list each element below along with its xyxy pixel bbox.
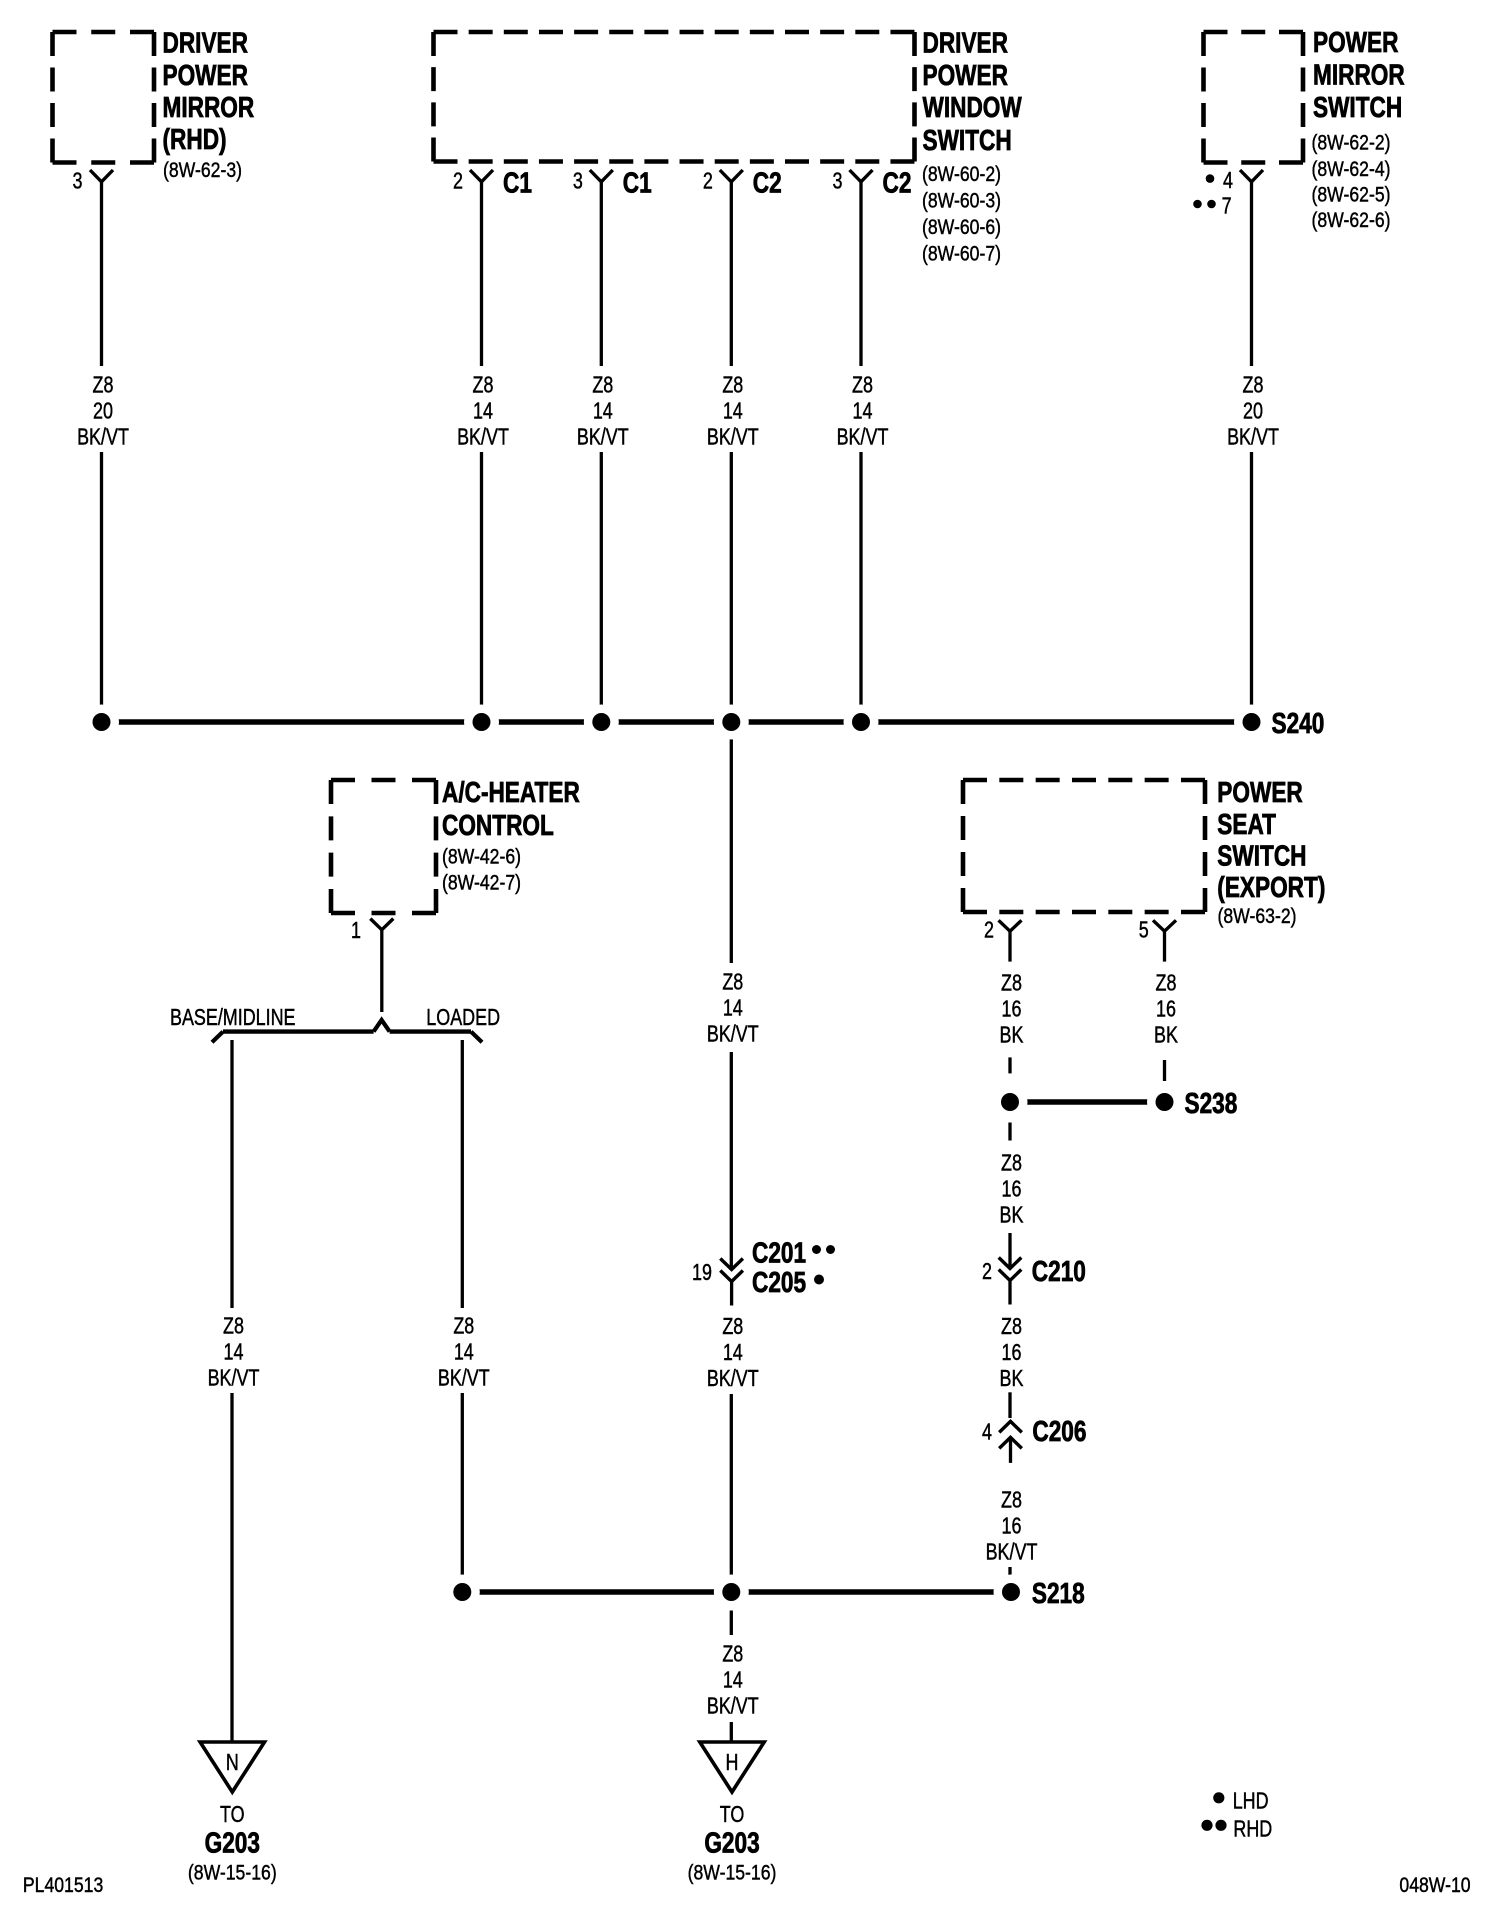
pin 1 of A/C-heater control bbox=[351, 918, 393, 944]
svg-text:C2: C2 bbox=[753, 166, 782, 199]
svg-text:14: 14 bbox=[224, 1339, 244, 1365]
label S218 bbox=[1032, 1576, 1085, 1609]
svg-text:Z8: Z8 bbox=[722, 1314, 743, 1340]
option split symbol BASE/MIDLINE vs LOADED bbox=[212, 1020, 482, 1042]
in-line connector C210 pin 2 bbox=[999, 1258, 1022, 1305]
svg-text:Z8: Z8 bbox=[1001, 1487, 1022, 1513]
wire dash seat pin2 to S238 bbox=[1008, 1057, 1011, 1073]
svg-text:Z8: Z8 bbox=[1156, 971, 1177, 997]
svg-text:BK/VT: BK/VT bbox=[457, 425, 509, 451]
legend RHD bbox=[1201, 1816, 1272, 1842]
value label Z8 14 BK/VT below S218 bbox=[707, 1641, 759, 1719]
label S240 bbox=[1272, 706, 1325, 739]
wire S218 to ground dash bbox=[730, 1611, 733, 1636]
label LOADED bbox=[426, 1005, 500, 1031]
wire dash above S218 bbox=[1008, 1567, 1011, 1579]
wire Z8 20 BK/VT mirror to S240 (lower) bbox=[100, 452, 103, 722]
svg-text:C1: C1 bbox=[623, 166, 652, 199]
wire to ground H bbox=[730, 1722, 733, 1742]
label A/C-HEATER CONTROL (8W-42-x) bbox=[442, 775, 580, 895]
legend LHD bbox=[1213, 1788, 1268, 1814]
svg-text:C1: C1 bbox=[503, 166, 532, 199]
svg-text:Z8: Z8 bbox=[1243, 373, 1264, 399]
svg-text:14: 14 bbox=[473, 399, 493, 425]
svg-text:Z8: Z8 bbox=[592, 373, 613, 399]
pin 2 of power seat switch bbox=[984, 917, 1021, 943]
svg-text:(8W-15-16): (8W-15-16) bbox=[688, 1861, 777, 1885]
wire dash above C210 bbox=[1008, 1233, 1011, 1267]
value label Z8 14 BK/VT x=601.3 bbox=[577, 373, 629, 451]
component box U1 DRIVER POWER MIRROR (RHD) bbox=[53, 32, 155, 163]
label C210 bbox=[1032, 1254, 1086, 1287]
svg-text:4: 4 bbox=[982, 1419, 992, 1445]
svg-text:(8W-63-2): (8W-63-2) bbox=[1218, 905, 1297, 929]
pin 7 marker (RHD dots) bbox=[1193, 194, 1231, 220]
svg-text:048W-10: 048W-10 bbox=[1399, 1874, 1470, 1898]
svg-text:1: 1 bbox=[351, 918, 361, 944]
value label Z8 16 BK pin5 bbox=[1154, 971, 1178, 1049]
value label Z8 20 BK/VT bbox=[77, 373, 129, 451]
svg-text:Z8: Z8 bbox=[722, 373, 743, 399]
svg-text:DRIVER: DRIVER bbox=[163, 26, 249, 59]
label POWER MIRROR SWITCH (8W-62-x) bbox=[1312, 25, 1405, 232]
svg-text:C206: C206 bbox=[1032, 1414, 1086, 1447]
svg-text:2: 2 bbox=[703, 169, 713, 195]
svg-text:RHD: RHD bbox=[1233, 1816, 1272, 1842]
svg-text:(8W-62-2): (8W-62-2) bbox=[1312, 131, 1391, 155]
svg-text:N: N bbox=[226, 1750, 239, 1776]
component box U5 POWER SEAT SWITCH (EXPORT) bbox=[963, 780, 1205, 912]
pin 2 C2 of window switch bbox=[703, 166, 782, 199]
wire dash above C206 bbox=[1008, 1392, 1011, 1418]
junction halos bbox=[84, 705, 1269, 1610]
pin 3 C1 of window switch bbox=[573, 166, 652, 199]
svg-text:C205: C205 bbox=[752, 1265, 806, 1298]
wire BASE/MIDLINE branch (upper) bbox=[230, 1040, 233, 1308]
svg-text:20: 20 bbox=[93, 399, 113, 425]
svg-text:Z8: Z8 bbox=[1001, 971, 1022, 997]
pin connector of power mirror switch bbox=[1240, 170, 1263, 182]
svg-text:(8W-42-7): (8W-42-7) bbox=[442, 871, 521, 895]
svg-text:14: 14 bbox=[853, 399, 873, 425]
svg-text:3: 3 bbox=[73, 169, 83, 195]
svg-text:14: 14 bbox=[723, 996, 743, 1022]
wire Z8 14 BK/VT S240 to C201 (upper) bbox=[730, 722, 733, 963]
wire splice bus S218 bbox=[462, 1589, 1011, 1595]
pin 4 marker (LHD dot) bbox=[1206, 168, 1233, 194]
svg-text:TO: TO bbox=[720, 1802, 745, 1828]
svg-text:20: 20 bbox=[1243, 399, 1263, 425]
label C205 with LHD dot bbox=[752, 1265, 824, 1298]
wire seat pin 5 stem bbox=[1163, 931, 1166, 961]
wire Z8 20 BK/VT mirror to S240 (upper) bbox=[100, 182, 103, 366]
label BASE/MIDLINE bbox=[170, 1005, 296, 1031]
wire Z8 14 BK/VT window switch pin x=861 (upper) bbox=[859, 182, 862, 366]
wire Z8 14 BK/VT window switch pin x=861 (lower) bbox=[859, 452, 862, 722]
svg-text:MIRROR: MIRROR bbox=[163, 90, 255, 123]
svg-text:BK/VT: BK/VT bbox=[577, 425, 629, 451]
svg-text:(RHD): (RHD) bbox=[163, 122, 227, 155]
svg-text:Z8: Z8 bbox=[1001, 1150, 1022, 1176]
svg-text:(8W-60-6): (8W-60-6) bbox=[922, 216, 1001, 240]
pin 3 C2 of window switch bbox=[833, 166, 912, 199]
wire dash S238 down bbox=[1008, 1123, 1011, 1141]
svg-text:14: 14 bbox=[723, 399, 743, 425]
label S238 bbox=[1185, 1086, 1238, 1119]
ground symbol N to G203 bbox=[188, 1742, 277, 1885]
svg-text:(8W-62-5): (8W-62-5) bbox=[1312, 183, 1391, 207]
wire Z8 14 BK/VT window switch pin x=601.3 (lower) bbox=[600, 452, 603, 722]
svg-text:BK: BK bbox=[1154, 1023, 1178, 1049]
svg-text:3: 3 bbox=[833, 169, 843, 195]
wire Z8 14 BK/VT S240 to C201 (lower) bbox=[730, 1052, 733, 1270]
svg-text:SEAT: SEAT bbox=[1217, 807, 1276, 840]
svg-text:BK: BK bbox=[1000, 1023, 1024, 1049]
svg-text:19: 19 bbox=[692, 1260, 712, 1286]
wire from A/C pin 1 to option split bbox=[380, 930, 383, 1012]
value label Z8 14 BK/VT x=481.5 bbox=[457, 373, 509, 451]
svg-text:Z8: Z8 bbox=[852, 373, 873, 399]
svg-text:H: H bbox=[726, 1750, 739, 1776]
in-line connector C201/C205 pin 19 bbox=[720, 1259, 743, 1306]
svg-text:(8W-60-7): (8W-60-7) bbox=[922, 242, 1001, 266]
svg-text:14: 14 bbox=[593, 399, 613, 425]
svg-text:Z8: Z8 bbox=[722, 970, 743, 996]
wire Z8 14 BK/VT window switch pin x=731.3 (upper) bbox=[730, 182, 733, 366]
svg-text:(8W-42-6): (8W-42-6) bbox=[442, 845, 521, 869]
svg-text:4: 4 bbox=[1223, 168, 1233, 194]
wire dash seat pin5 to S238 bbox=[1163, 1060, 1166, 1081]
svg-text:CONTROL: CONTROL bbox=[442, 808, 554, 841]
value label Z8 14 BK/VT middle upper bbox=[707, 970, 759, 1048]
value label Z8 14 BK/VT x=731.3 bbox=[707, 373, 759, 451]
svg-text:Z8: Z8 bbox=[722, 1641, 743, 1667]
wire LOADED branch (upper) bbox=[461, 1040, 464, 1308]
label DRIVER POWER MIRROR (RHD) (8W-62-3) bbox=[163, 26, 255, 183]
svg-text:16: 16 bbox=[1002, 1176, 1022, 1202]
wire Z8 14 BK/VT window switch pin x=481.5 (upper) bbox=[480, 182, 483, 366]
label POWER SEAT SWITCH (EXPORT) (8W-63-2) bbox=[1217, 775, 1325, 928]
value label Z8 20 BK/VT right bbox=[1227, 373, 1279, 451]
svg-text:(EXPORT): (EXPORT) bbox=[1217, 870, 1325, 903]
svg-text:16: 16 bbox=[1002, 1513, 1022, 1539]
svg-text:G203: G203 bbox=[704, 1826, 759, 1859]
svg-text:BASE/MIDLINE: BASE/MIDLINE bbox=[170, 1005, 296, 1031]
svg-text:(8W-60-2): (8W-60-2) bbox=[922, 163, 1001, 187]
svg-text:Z8: Z8 bbox=[223, 1313, 244, 1339]
svg-text:BK/VT: BK/VT bbox=[707, 1366, 759, 1392]
svg-text:WINDOW: WINDOW bbox=[923, 90, 1023, 123]
svg-text:2: 2 bbox=[453, 169, 463, 195]
svg-text:(8W-15-16): (8W-15-16) bbox=[188, 1861, 277, 1885]
wire Z8 14 BK/VT window switch pin x=731.3 (lower) bbox=[730, 452, 733, 722]
wire seat pin 2 stem bbox=[1008, 931, 1011, 961]
junction dots S240 S238 S218 bbox=[93, 713, 1261, 1601]
svg-text:5: 5 bbox=[1139, 917, 1149, 943]
svg-text:(8W-62-3): (8W-62-3) bbox=[163, 159, 242, 183]
svg-text:(8W-62-4): (8W-62-4) bbox=[1312, 158, 1391, 182]
value label Z8 14 BK/VT base/midline bbox=[208, 1313, 260, 1391]
svg-text:TO: TO bbox=[220, 1802, 245, 1828]
value label Z8 14 BK/VT loaded bbox=[438, 1313, 490, 1391]
svg-text:BK/VT: BK/VT bbox=[208, 1365, 260, 1391]
svg-text:LOADED: LOADED bbox=[426, 1005, 500, 1031]
value label Z8 16 BK pin2 bbox=[1000, 971, 1024, 1049]
svg-text:BK: BK bbox=[1000, 1366, 1024, 1392]
svg-text:14: 14 bbox=[723, 1340, 743, 1366]
svg-text:16: 16 bbox=[1002, 997, 1022, 1023]
wire Z8 14 BK/VT C201 to S218 bbox=[730, 1394, 733, 1592]
value label Z8 14 BK/VT middle lower bbox=[707, 1314, 759, 1392]
svg-text:PL401513: PL401513 bbox=[23, 1874, 103, 1898]
pin number 4 at C206 bbox=[982, 1419, 992, 1445]
wire Z8 14 BK/VT window switch pin x=481.5 (lower) bbox=[480, 452, 483, 722]
wire splice bus S240 bbox=[102, 719, 1252, 725]
svg-text:BK/VT: BK/VT bbox=[837, 425, 889, 451]
svg-text:2: 2 bbox=[982, 1259, 992, 1285]
svg-text:POWER: POWER bbox=[1217, 775, 1303, 808]
pin number 2 at C210 bbox=[982, 1259, 992, 1285]
svg-text:Z8: Z8 bbox=[473, 373, 494, 399]
svg-text:G203: G203 bbox=[205, 1826, 260, 1859]
svg-text:DRIVER: DRIVER bbox=[923, 26, 1009, 59]
svg-text:16: 16 bbox=[1156, 997, 1176, 1023]
svg-text:BK/VT: BK/VT bbox=[707, 425, 759, 451]
label DRIVER POWER WINDOW SWITCH (8W-60-x) bbox=[922, 26, 1022, 266]
svg-text:SWITCH: SWITCH bbox=[1217, 839, 1306, 872]
svg-text:LHD: LHD bbox=[1233, 1788, 1269, 1814]
svg-text:C210: C210 bbox=[1032, 1254, 1086, 1287]
svg-text:A/C-HEATER: A/C-HEATER bbox=[442, 775, 580, 808]
svg-text:16: 16 bbox=[1002, 1340, 1022, 1366]
wire LOADED branch to S218 bbox=[461, 1393, 464, 1592]
svg-text:7: 7 bbox=[1222, 194, 1232, 220]
svg-text:2: 2 bbox=[984, 917, 994, 943]
svg-text:BK/VT: BK/VT bbox=[986, 1539, 1038, 1565]
svg-text:Z8: Z8 bbox=[1001, 1314, 1022, 1340]
svg-text:(8W-60-3): (8W-60-3) bbox=[922, 189, 1001, 213]
component box U4 A/C-HEATER CONTROL bbox=[331, 780, 436, 913]
pin 5 of power seat switch bbox=[1139, 917, 1176, 943]
svg-text:S240: S240 bbox=[1272, 706, 1325, 739]
svg-text:3: 3 bbox=[573, 169, 583, 195]
value label Z8 16 BK below S238 bbox=[1000, 1150, 1024, 1228]
svg-text:BK: BK bbox=[1000, 1202, 1024, 1228]
wire Z8 20 BK/VT mirror switch to S240 (lower) bbox=[1250, 452, 1253, 722]
pin 2 C1 of window switch bbox=[453, 166, 532, 199]
wire BASE/MIDLINE branch to ground N bbox=[230, 1393, 233, 1742]
in-line connector C206 pin 4 bbox=[999, 1421, 1022, 1463]
component box U2 DRIVER POWER WINDOW SWITCH bbox=[434, 32, 915, 162]
component box U3 POWER MIRROR SWITCH bbox=[1204, 32, 1304, 163]
ground symbol H to G203 bbox=[688, 1742, 777, 1885]
pin number 19 bbox=[692, 1260, 712, 1286]
svg-text:14: 14 bbox=[454, 1339, 474, 1365]
svg-text:POWER: POWER bbox=[1313, 25, 1399, 58]
svg-text:C201: C201 bbox=[752, 1236, 806, 1269]
svg-text:SWITCH: SWITCH bbox=[923, 123, 1012, 156]
pin 3 of driver power mirror bbox=[73, 169, 113, 195]
svg-text:BK/VT: BK/VT bbox=[77, 425, 129, 451]
svg-text:SWITCH: SWITCH bbox=[1313, 90, 1402, 123]
svg-text:BK/VT: BK/VT bbox=[438, 1365, 490, 1391]
label C206 bbox=[1032, 1414, 1086, 1447]
value label Z8 16 BK below C210 bbox=[1000, 1314, 1024, 1392]
sheet code PL401513 bbox=[23, 1874, 103, 1898]
value label Z8 14 BK/VT x=861 bbox=[837, 373, 889, 451]
label C201 with RHD dots bbox=[752, 1236, 835, 1269]
svg-text:POWER: POWER bbox=[163, 58, 249, 91]
svg-text:Z8: Z8 bbox=[93, 373, 114, 399]
svg-text:S238: S238 bbox=[1185, 1086, 1238, 1119]
svg-text:POWER: POWER bbox=[923, 58, 1009, 91]
value label Z8 16 BK/VT below C206 bbox=[986, 1487, 1038, 1565]
svg-text:BK/VT: BK/VT bbox=[707, 1022, 759, 1048]
svg-text:BK/VT: BK/VT bbox=[1227, 425, 1279, 451]
svg-text:S218: S218 bbox=[1032, 1576, 1085, 1609]
svg-text:C2: C2 bbox=[883, 166, 912, 199]
svg-text:14: 14 bbox=[723, 1667, 743, 1693]
wire Z8 14 BK/VT window switch pin x=601.3 (upper) bbox=[600, 182, 603, 366]
wire splice link S238 bbox=[1010, 1099, 1165, 1105]
sheet code 048W-10 bbox=[1399, 1874, 1470, 1898]
svg-text:MIRROR: MIRROR bbox=[1313, 58, 1405, 91]
svg-text:(8W-62-6): (8W-62-6) bbox=[1312, 209, 1391, 233]
svg-text:Z8: Z8 bbox=[453, 1313, 474, 1339]
wire Z8 20 BK/VT mirror switch to S240 (upper) bbox=[1250, 182, 1253, 366]
svg-text:BK/VT: BK/VT bbox=[707, 1693, 759, 1719]
